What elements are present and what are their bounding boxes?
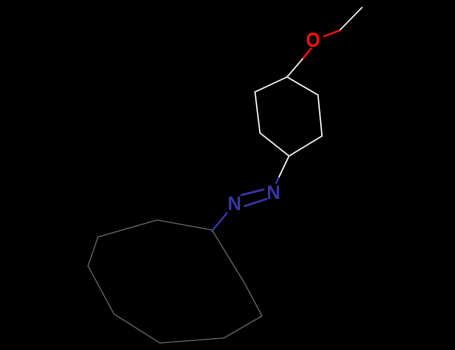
svg-text:N: N <box>228 194 242 215</box>
wire: bond C4-N1 (C half) <box>279 156 290 178</box>
wire: bond C4-N1 (N half, blue) <box>276 178 279 183</box>
wire: bond O-C1 (C half) <box>287 59 303 77</box>
ring: cyclononane C9-C17 <box>88 220 262 343</box>
svg-text:N: N <box>267 183 281 204</box>
ring: cyclohexane C1-C6 <box>255 77 322 156</box>
wire: bond O-C7 (O half, red) <box>324 31 340 37</box>
azo double bond N1=N2 <box>242 190 264 196</box>
wire: bond N2-C9 (N half, blue) <box>212 213 227 231</box>
svg-text:O: O <box>306 28 320 52</box>
wire: ethoxy bond C7-C8 (terminal CH3 segment) <box>340 8 363 31</box>
wire: bond O-C1 (O half, red) <box>303 49 312 60</box>
